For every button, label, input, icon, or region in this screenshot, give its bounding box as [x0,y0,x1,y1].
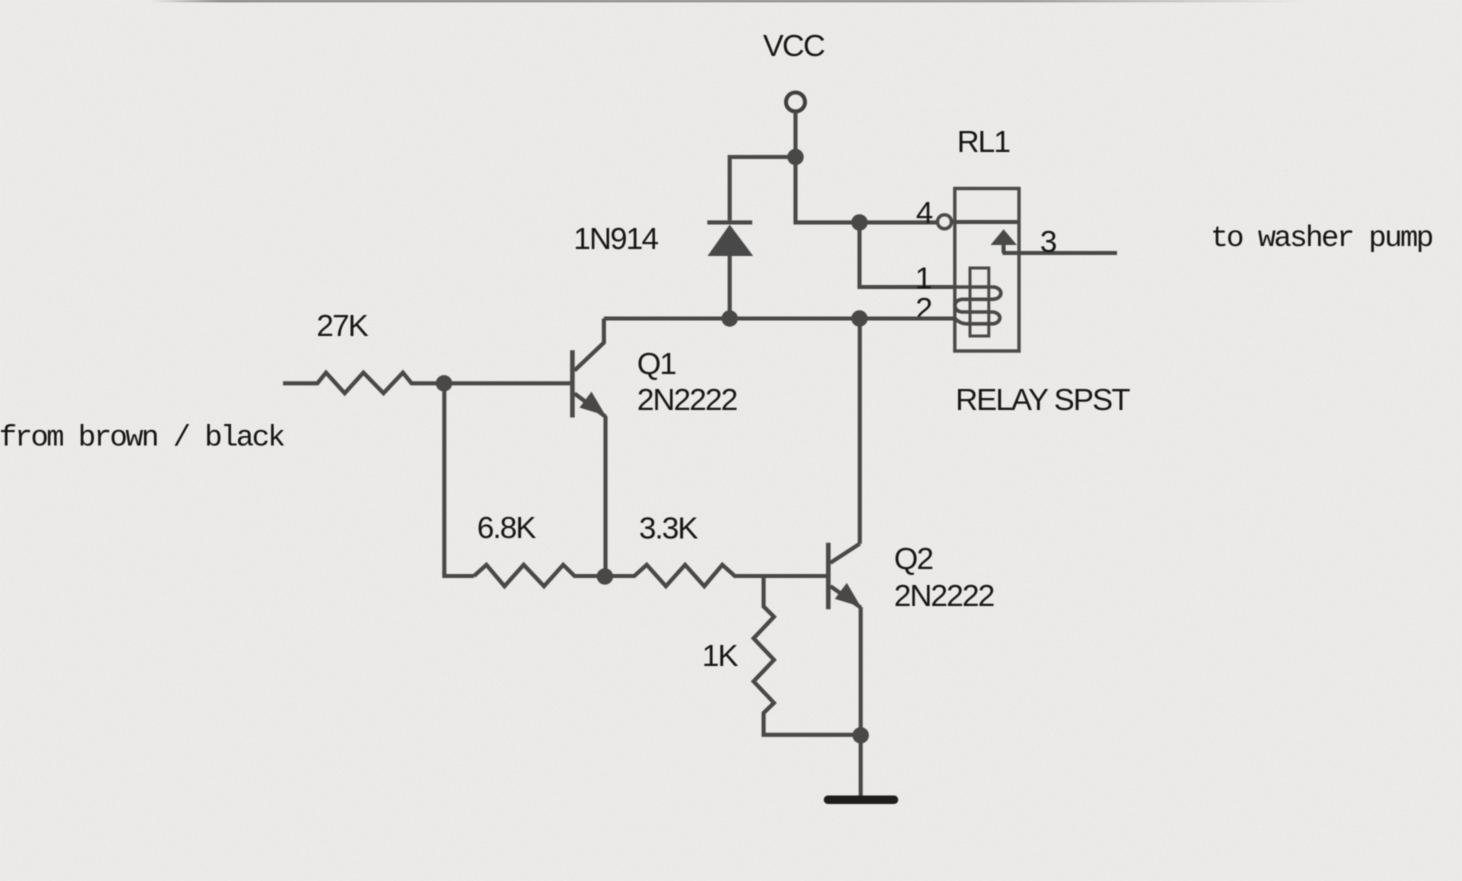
svg-text:1N914: 1N914 [574,221,659,256]
wire junction to ground [859,735,863,796]
ground [828,796,894,805]
wire pin4 into relay [952,220,1019,224]
wire Q2 collector vertical [858,319,862,544]
relay coil winding [955,287,1001,324]
svg-text:4: 4 [916,195,933,230]
svg-text:to washer pump: to washer pump [1211,222,1432,256]
svg-text:Q1: Q1 [637,346,676,381]
wire base junction down to 6.8K [444,383,474,576]
svg-text:2N2222: 2N2222 [894,578,994,613]
svg-text:2N2222: 2N2222 [637,382,737,417]
scan edge artifact [150,0,1310,2]
svg-text:VCC: VCC [763,28,825,63]
svg-text:1K: 1K [702,638,739,673]
transistor Q2 [828,543,861,736]
svg-text:3.3K: 3.3K [639,511,699,546]
wire base junction to Q1 [444,381,570,385]
svg-text:3: 3 [1040,224,1056,259]
node diode junction [722,310,738,326]
resistor 27K [283,373,444,394]
node emitter/divider junction [597,568,613,584]
node Q2 collector junction [851,310,867,326]
relay switch arm arrow [991,229,1017,245]
relay RL1 box [955,189,1019,352]
node base junction [436,375,452,391]
svg-text:RL1: RL1 [957,124,1010,159]
svg-text:from brown / black: from brown / black [0,422,285,456]
wire junction down to pin4 net [796,157,937,222]
svg-text:6.8K: 6.8K [477,510,537,545]
relay coil core [970,268,989,336]
resistor 3.3K [605,565,827,586]
wire pin4 junction down to pin1 wire [860,222,955,287]
node emitter/ground junction [853,727,869,743]
svg-text:RELAY SPST: RELAY SPST [956,382,1131,417]
pin 4 terminal circle [938,215,952,229]
wire VCC circle to junction [793,112,797,158]
node VCC junction [787,149,803,165]
transistor Q1 [572,319,605,577]
svg-text:27K: 27K [317,308,369,343]
diode D1 1N914 [707,222,753,318]
VCC terminal [786,93,805,112]
svg-text:2: 2 [916,291,932,326]
svg-text:Q2: Q2 [894,541,933,576]
resistor 1K [754,578,861,735]
wire junction to diode branch [730,157,796,220]
node pin4-net junction [851,214,867,230]
collector net wire (Q1 collector to relay pin 2) [604,316,955,320]
resistor 6.8K [474,565,605,586]
wire pin 3 out [1003,251,1118,255]
